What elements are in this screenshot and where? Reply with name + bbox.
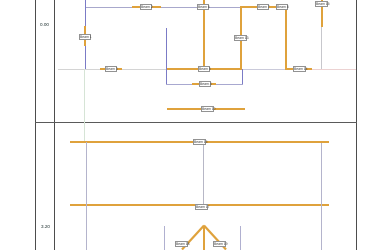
beam B4 horizontal (y=84, x 192-216) <box>192 83 216 85</box>
wire: purple column x=85 (y 0-69) <box>85 0 86 69</box>
beam B2 horizontal (y=7, x 132-161) <box>132 6 161 8</box>
label Beam 7 <box>257 4 269 10</box>
grid column line left B (x=54) <box>54 0 55 250</box>
label Beam 4 <box>199 81 211 87</box>
label Beam 16 <box>193 139 206 145</box>
label Beam 10 <box>201 106 214 112</box>
wire: lavender chord y=69 segment (x 242-285) <box>242 69 285 70</box>
label Beam 8 <box>276 4 288 10</box>
wire: gray chord y=69 segment (x 122-166) <box>122 69 166 70</box>
label Beam 18 <box>175 241 188 247</box>
beam B8 vertical (x=286, y 6-69) <box>285 6 287 69</box>
beam B14 horizontal (y=68, x 285-312) <box>285 68 312 70</box>
beam B3 horizontal (y=69, x 100-122) <box>100 68 122 70</box>
label Beam 15 <box>315 1 328 7</box>
label Beam 2 <box>140 4 152 10</box>
level text 0.00 <box>40 23 49 28</box>
label Beam 3 <box>105 66 117 72</box>
rafter right (apex 204,225.5 to 226,249.5) <box>204 226 226 250</box>
wire: gray connector x=203 (y 145-205) <box>203 145 204 205</box>
right border line (x=356) <box>356 0 357 250</box>
wire: purple column x=242 (y 69-84) <box>242 69 243 84</box>
beam B5 horizontal (y=69, x 166-242) <box>166 68 242 70</box>
wire: lavender top chord y=7 (x 85-241) <box>85 7 241 8</box>
label Beam 1 <box>79 34 91 40</box>
wire: lavender column x=86 (y 142-250) <box>86 142 87 250</box>
beam B16 horizontal (y=142, x 70-329) <box>70 141 329 143</box>
ridge post vertical (x=204, y 225.5-250) <box>203 226 205 250</box>
grid column line left A (x=35) <box>35 0 36 250</box>
wire: lavender bottom of U y=83.5 (x 166-243) <box>166 84 243 85</box>
label Beam 19 <box>213 241 226 247</box>
sheet divider border (y=122) <box>35 122 357 123</box>
beam B7 horizontal (y=7, x 241-287) <box>241 6 287 8</box>
beam B6 vertical (x=203, y 0-69) <box>203 0 205 69</box>
wire: purple column x=166 (y 28-84) <box>166 28 167 84</box>
label Beam 13 <box>234 35 247 41</box>
wire: truss side support left x=164 (y 226-250) <box>164 226 165 250</box>
wire: pink chord y=69 segment (x 312-356) <box>312 69 356 70</box>
wire: gray chord y=69 segment (x 58-100) <box>58 69 100 70</box>
level text 3.20 <box>41 225 50 230</box>
label Beam 5 <box>198 66 210 72</box>
wire: truss side support right x=240 (y 226-250) <box>240 226 241 250</box>
wire: lavender column x=321 (y 143-250) <box>321 143 322 250</box>
label Beam 17 <box>195 204 208 210</box>
label Beam 6 <box>197 4 209 10</box>
beam B17 horizontal (y=205, x 70-329) <box>70 204 329 206</box>
rafter left (apex 204,225.5 to 182,249.5) <box>182 226 204 250</box>
grid line green x=84 (y 69-142) <box>84 69 85 142</box>
beam B13 vertical (x=241, y 6-69) <box>240 6 242 69</box>
beam B10 horizontal isolated (y=109, x 167-245) <box>167 108 245 110</box>
label Beam 14 <box>293 66 306 72</box>
beam B15 vertical stub (x=321, y 0-27) <box>321 0 323 27</box>
beam B1 vertical (x=85, y 26-46) <box>84 26 86 46</box>
wire: gray column continuation x=321 (y 27-69) <box>321 27 322 69</box>
